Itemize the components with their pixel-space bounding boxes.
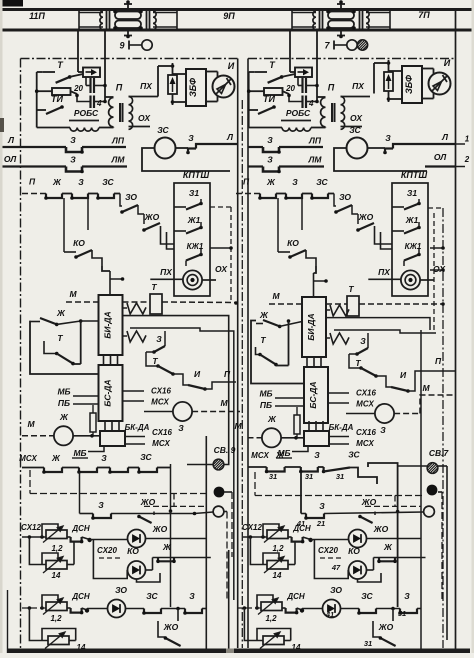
- svg-text:ЗО: ЗО: [125, 192, 137, 202]
- svg-text:МБ: МБ: [73, 448, 86, 458]
- svg-text:П: П: [243, 177, 250, 187]
- svg-text:ЛМ: ЛМ: [111, 155, 126, 165]
- svg-text:БИ-ДА: БИ-ДА: [306, 313, 316, 340]
- svg-text:1,2: 1,2: [50, 614, 62, 623]
- svg-text:Т: Т: [57, 333, 63, 343]
- svg-text:П: П: [29, 177, 36, 187]
- svg-text:КО: КО: [127, 546, 139, 556]
- svg-text:ОХ: ОХ: [215, 264, 228, 274]
- svg-text:Ж: Ж: [59, 412, 69, 422]
- svg-text:БС-ДА: БС-ДА: [103, 379, 113, 406]
- svg-text:14: 14: [273, 571, 282, 580]
- svg-text:Ж: Ж: [259, 310, 269, 320]
- svg-text:З: З: [101, 453, 107, 463]
- svg-text:З: З: [360, 336, 366, 346]
- svg-text:1,2: 1,2: [265, 614, 277, 623]
- svg-text:ЖО: ЖО: [152, 524, 168, 534]
- svg-text:9: 9: [119, 41, 124, 51]
- svg-text:М: М: [69, 289, 77, 299]
- svg-text:З: З: [188, 133, 194, 143]
- svg-text:31: 31: [305, 472, 313, 481]
- svg-text:З: З: [70, 155, 76, 165]
- svg-text:Т: Т: [348, 284, 354, 294]
- svg-text:20: 20: [285, 84, 295, 93]
- svg-text:М: М: [220, 398, 228, 408]
- svg-text:11П: 11П: [29, 11, 45, 21]
- svg-text:Ж: Ж: [383, 542, 393, 552]
- svg-text:З: З: [70, 135, 76, 145]
- svg-text:ЖО: ЖО: [373, 524, 389, 534]
- svg-text:31: 31: [336, 472, 344, 481]
- svg-text:ЗС: ЗС: [316, 177, 328, 187]
- svg-text:Ж: Ж: [162, 542, 172, 552]
- svg-text:Ж: Ж: [56, 308, 66, 318]
- svg-text:МСХ: МСХ: [356, 400, 374, 409]
- svg-text:ЗС: ЗС: [348, 450, 360, 460]
- svg-text:З: З: [380, 425, 386, 435]
- svg-text:ЖО: ЖО: [140, 497, 156, 507]
- svg-text:ПБ: ПБ: [260, 400, 272, 410]
- svg-text:МБ: МБ: [259, 389, 272, 399]
- svg-text:З: З: [156, 334, 162, 344]
- svg-text:М: М: [422, 383, 430, 393]
- svg-text:1,2: 1,2: [272, 544, 284, 553]
- svg-text:М: М: [234, 421, 242, 431]
- svg-text:КПТШ: КПТШ: [401, 170, 428, 180]
- svg-text:ЗО: ЗО: [115, 585, 127, 595]
- svg-text:З: З: [178, 423, 184, 433]
- svg-text:СХ12: СХ12: [21, 523, 41, 532]
- svg-text:МСХ: МСХ: [152, 439, 170, 448]
- svg-text:Л: Л: [441, 132, 448, 142]
- svg-text:ДСН: ДСН: [71, 524, 90, 533]
- svg-text:ЗО: ЗО: [330, 585, 342, 595]
- svg-text:И: И: [228, 61, 235, 71]
- svg-text:Л: Л: [7, 135, 14, 145]
- svg-text:З: З: [319, 501, 325, 511]
- svg-text:П: П: [116, 83, 123, 93]
- svg-text:З: З: [314, 450, 320, 460]
- svg-text:КО: КО: [73, 238, 85, 248]
- svg-text:ДСН: ДСН: [286, 592, 305, 601]
- svg-text:ДСН: ДСН: [71, 592, 90, 601]
- svg-text:СХ20: СХ20: [318, 546, 338, 555]
- svg-text:З: З: [404, 591, 410, 601]
- svg-text:ОЛ: ОЛ: [4, 154, 16, 164]
- svg-text:З: З: [267, 135, 273, 145]
- svg-text:МСХ: МСХ: [151, 398, 169, 407]
- svg-text:ЗС: ЗС: [140, 452, 152, 462]
- svg-text:РОБС: РОБС: [286, 108, 311, 118]
- svg-text:Л: Л: [226, 132, 233, 142]
- svg-text:З1: З1: [189, 188, 199, 198]
- svg-text:СХ16: СХ16: [356, 389, 376, 398]
- svg-text:П: П: [328, 83, 335, 93]
- svg-text:П: П: [224, 369, 231, 379]
- svg-text:ОЛ: ОЛ: [434, 152, 446, 162]
- svg-text:ЗС: ЗС: [146, 591, 158, 601]
- svg-text:СХ12: СХ12: [242, 523, 262, 532]
- svg-text:1,2: 1,2: [51, 544, 63, 553]
- svg-text:7П: 7П: [418, 10, 430, 20]
- svg-text:Т: Т: [151, 282, 157, 292]
- svg-text:ЖО: ЖО: [361, 497, 377, 507]
- svg-text:БК-ДА: БК-ДА: [329, 423, 354, 432]
- svg-text:ЖО: ЖО: [144, 212, 160, 222]
- svg-text:БК-ДА: БК-ДА: [125, 423, 150, 432]
- svg-text:ПХ: ПХ: [378, 267, 391, 277]
- svg-text:ПХ: ПХ: [140, 81, 153, 91]
- svg-text:МСХ: МСХ: [251, 451, 269, 460]
- svg-text:БС-ДА: БС-ДА: [308, 381, 318, 408]
- svg-text:Ж1: Ж1: [187, 215, 201, 225]
- svg-text:КПТШ: КПТШ: [183, 170, 210, 180]
- svg-text:20: 20: [73, 84, 83, 93]
- svg-text:Ж: Ж: [51, 453, 61, 463]
- svg-text:1: 1: [465, 135, 470, 144]
- svg-text:РОБС: РОБС: [74, 108, 99, 118]
- svg-text:М: М: [272, 291, 280, 301]
- svg-text:М: М: [27, 419, 35, 429]
- svg-text:ДСН: ДСН: [292, 524, 311, 533]
- svg-text:Ж1: Ж1: [405, 215, 419, 225]
- svg-text:4: 4: [308, 99, 314, 108]
- svg-text:МБ: МБ: [57, 387, 70, 397]
- svg-text:ЗС: ЗС: [102, 177, 114, 187]
- svg-text:З: З: [98, 500, 104, 510]
- svg-text:2: 2: [464, 155, 470, 164]
- svg-text:ЗО: ЗО: [339, 192, 351, 202]
- svg-text:ЖО: ЖО: [378, 622, 394, 632]
- svg-text:З: З: [267, 155, 273, 165]
- svg-text:БИ-ДА: БИ-ДА: [103, 311, 113, 338]
- svg-text:И: И: [444, 58, 451, 68]
- svg-text:ЗБФ: ЗБФ: [188, 78, 198, 97]
- svg-text:И: И: [194, 369, 201, 379]
- svg-text:ОХ: ОХ: [138, 113, 151, 123]
- svg-text:ПХ: ПХ: [160, 267, 173, 277]
- svg-text:ТИ: ТИ: [263, 94, 275, 104]
- svg-text:ОХ: ОХ: [350, 113, 363, 123]
- svg-text:СХ20: СХ20: [97, 546, 117, 555]
- svg-text:МСХ: МСХ: [19, 454, 37, 463]
- svg-text:Ж: Ж: [52, 177, 62, 187]
- svg-text:ЗС: ЗС: [361, 591, 373, 601]
- svg-text:МСХ: МСХ: [356, 439, 374, 448]
- svg-text:4: 4: [96, 99, 102, 108]
- svg-text:ЗС: ЗС: [349, 125, 361, 135]
- svg-text:ТИ: ТИ: [51, 94, 63, 104]
- svg-text:9П: 9П: [223, 11, 235, 21]
- svg-text:З1: З1: [407, 188, 417, 198]
- svg-text:Т: Т: [260, 335, 266, 345]
- svg-text:КО: КО: [287, 238, 299, 248]
- svg-text:31: 31: [364, 639, 372, 648]
- svg-text:И: И: [400, 370, 407, 380]
- svg-text:51: 51: [398, 609, 406, 618]
- svg-text:СВ.7: СВ.7: [429, 448, 450, 458]
- svg-text:ПХ: ПХ: [352, 81, 365, 91]
- svg-text:З: З: [292, 177, 298, 187]
- svg-text:З: З: [385, 133, 391, 143]
- svg-text:31: 31: [269, 472, 277, 481]
- svg-text:Ж: Ж: [275, 450, 285, 460]
- svg-text:ЖО: ЖО: [163, 622, 179, 632]
- svg-text:Ж: Ж: [266, 177, 276, 187]
- svg-text:ЛП: ЛП: [308, 136, 322, 146]
- svg-text:21: 21: [316, 519, 325, 528]
- svg-text:КО: КО: [348, 546, 360, 556]
- svg-text:ЛМ: ЛМ: [308, 155, 323, 165]
- svg-text:41: 41: [325, 610, 334, 619]
- svg-text:Ж: Ж: [267, 414, 277, 424]
- svg-text:14: 14: [52, 571, 61, 580]
- svg-text:ЗС: ЗС: [157, 125, 169, 135]
- svg-text:З: З: [78, 177, 84, 187]
- svg-text:СХ16: СХ16: [152, 428, 172, 437]
- svg-text:47: 47: [331, 563, 341, 572]
- svg-text:ЛП: ЛП: [111, 136, 125, 146]
- svg-text:ЗБФ: ЗБФ: [404, 75, 414, 94]
- svg-text:ПБ: ПБ: [58, 398, 70, 408]
- svg-text:СХ16: СХ16: [356, 428, 376, 437]
- svg-text:З: З: [189, 591, 195, 601]
- svg-text:СХ16: СХ16: [151, 387, 171, 396]
- svg-text:ЖО: ЖО: [358, 212, 374, 222]
- svg-text:П: П: [435, 356, 442, 366]
- svg-text:СВ. 9: СВ. 9: [214, 445, 236, 455]
